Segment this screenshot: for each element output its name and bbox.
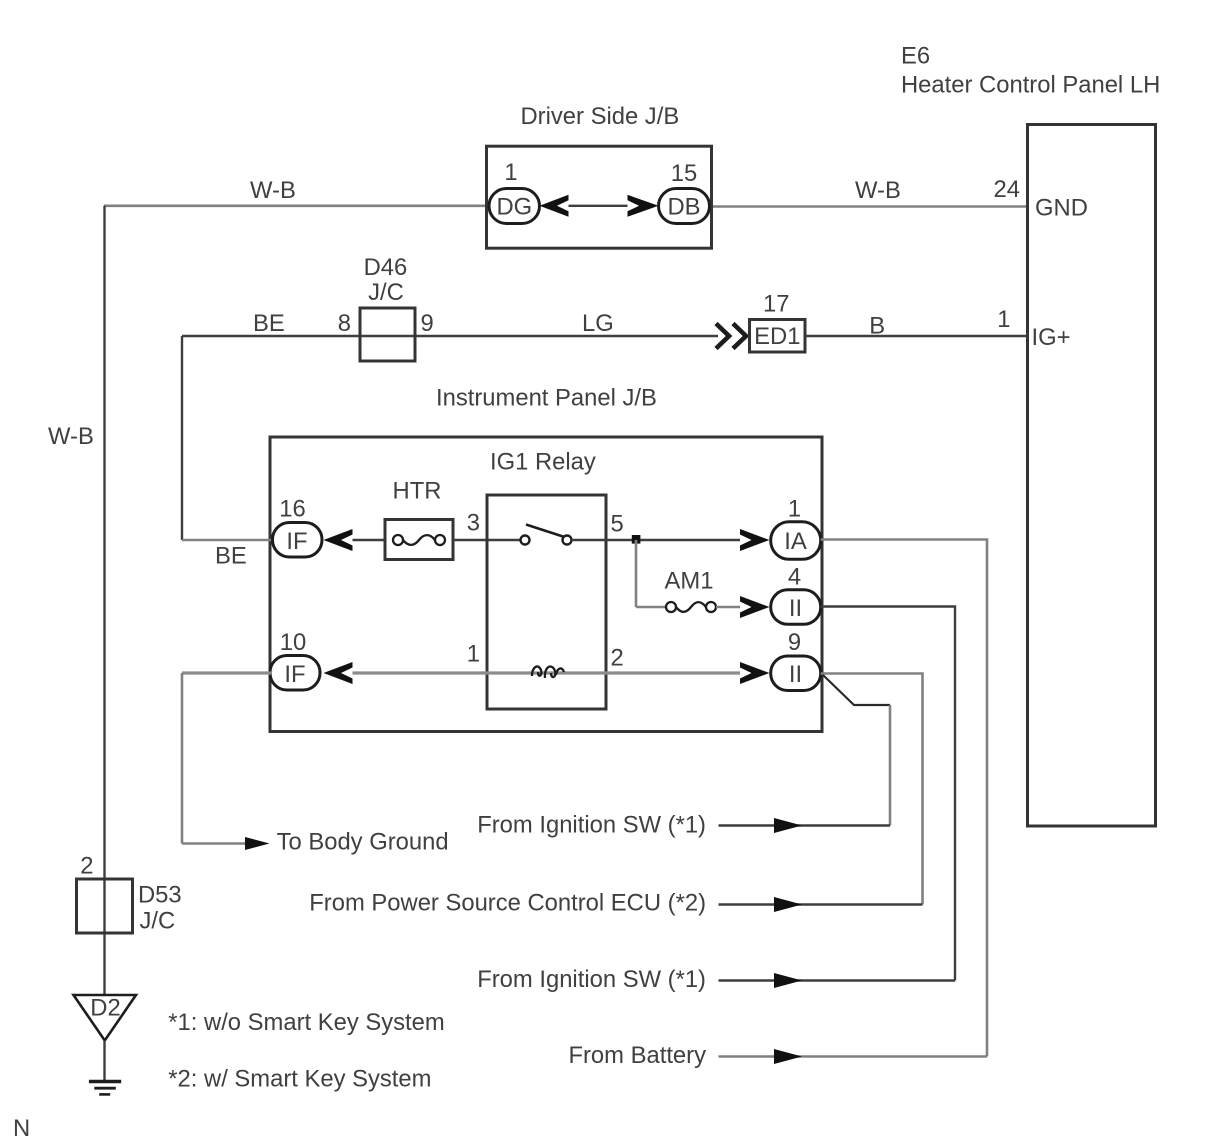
wire down to ignition SW row1 [889, 705, 892, 826]
connector arrow into IA [740, 529, 770, 551]
ground connector D2 triangle [74, 995, 137, 1041]
svg-text:From Power Source Control ECU: From Power Source Control ECU (*2) [309, 890, 706, 917]
connector arrow into IF10 [324, 662, 353, 684]
svg-text:B: B [869, 313, 885, 340]
svg-text:HTR: HTR [393, 478, 442, 505]
svg-text:Heater Control Panel LH: Heater Control Panel LH [901, 72, 1160, 99]
junction block Driver Side J/B box [487, 146, 712, 248]
svg-text:E6: E6 [901, 43, 930, 70]
connector arrow into DG [540, 195, 569, 217]
wire from battery horizontal [719, 1055, 988, 1058]
svg-text:24: 24 [994, 176, 1020, 203]
wire from power source control ECU [719, 903, 923, 905]
svg-text:1: 1 [997, 306, 1010, 333]
wire B from ED1 to E6 [805, 335, 1028, 337]
svg-text:1: 1 [467, 641, 480, 668]
svg-text:N: N [13, 1115, 30, 1142]
svg-text:8: 8 [338, 310, 351, 337]
relay IG1 box [487, 495, 606, 709]
svg-text:4: 4 [788, 564, 801, 591]
svg-text:1: 1 [788, 496, 801, 523]
wire from ignition SW row1 [719, 824, 891, 826]
svg-text:From Ignition SW (*1): From Ignition SW (*1) [477, 812, 706, 839]
svg-text:D2: D2 [90, 995, 120, 1022]
svg-text:*2: w/ Smart Key System: *2: w/ Smart Key System [168, 1066, 431, 1093]
wire IF10 to left [182, 671, 271, 674]
connector chevrons into ED1 [716, 324, 746, 349]
arrow from ignition SW row3 [774, 973, 802, 988]
svg-text:IG+: IG+ [1032, 324, 1071, 351]
svg-text:W-B: W-B [250, 177, 296, 204]
fuse AM1 [666, 602, 716, 612]
wire IA to battery vertical route [821, 540, 987, 1057]
wire coil row [353, 671, 741, 674]
wire IF16 to HTR [353, 539, 386, 541]
svg-text:D53: D53 [138, 882, 182, 909]
svg-text:J/C: J/C [368, 279, 404, 306]
svg-text:5: 5 [611, 511, 624, 538]
svg-text:II: II [789, 595, 802, 622]
connector arrow into DB [628, 195, 659, 217]
svg-text:W-B: W-B [855, 177, 901, 204]
svg-text:J/C: J/C [140, 908, 176, 935]
svg-text:DG: DG [496, 194, 532, 221]
svg-text:1: 1 [504, 159, 517, 186]
svg-text:Driver Side J/B: Driver Side J/B [521, 103, 680, 130]
connector cavity II pin9 [771, 656, 821, 691]
wire between DG and DB [569, 205, 628, 207]
arrow to body ground [245, 837, 270, 850]
svg-text:ED1: ED1 [754, 323, 800, 350]
junction connector D46 J/C box [360, 308, 415, 361]
arrow from battery [774, 1049, 802, 1064]
svg-text:2: 2 [611, 645, 624, 672]
svg-text:*1: w/o Smart Key System: *1: w/o Smart Key System [168, 1009, 444, 1036]
svg-text:9: 9 [788, 629, 801, 656]
switch contact left [521, 536, 530, 545]
connector cavity DB [659, 189, 710, 224]
connector cavity IF pin10 [270, 656, 320, 691]
svg-text:From Ignition SW (*1): From Ignition SW (*1) [477, 966, 706, 993]
wire D2 to ground [103, 1041, 105, 1081]
connector cavity IA pin1 [771, 522, 821, 560]
svg-text:16: 16 [279, 496, 305, 523]
wire II4 to ignition SW route [821, 607, 955, 981]
coil of IG1 relay [532, 666, 564, 678]
svg-text:To Body Ground: To Body Ground [277, 829, 449, 856]
wire BE into IF16 [182, 539, 274, 542]
switch lever of IG1 relay [526, 525, 565, 538]
svg-text:3: 3 [467, 510, 480, 537]
junction connector D53 J/C box [77, 879, 133, 933]
wire W-B top right [710, 205, 1028, 208]
svg-text:IF: IF [284, 661, 305, 688]
wire AM1 to II4 [716, 606, 740, 609]
wire down to body ground [181, 673, 184, 844]
svg-text:IG1 Relay: IG1 Relay [490, 449, 596, 476]
svg-text:2: 2 [80, 853, 93, 880]
ground symbol [89, 1082, 121, 1095]
wire BE horizontal to D46 and LG to ED1 [182, 335, 718, 337]
wire junction down to AM1 [635, 540, 638, 607]
svg-text:DB: DB [667, 194, 700, 221]
node junction dot [632, 535, 641, 544]
connector arrow into II4 [740, 596, 770, 618]
wire BE vertical [181, 336, 183, 540]
svg-text:BE: BE [253, 310, 285, 337]
wire W-B top left [104, 205, 490, 208]
svg-text:15: 15 [671, 160, 697, 187]
svg-text:Instrument Panel J/B: Instrument Panel J/B [436, 385, 657, 412]
svg-text:IA: IA [784, 528, 807, 555]
connector cavity DG [489, 189, 540, 224]
connector arrow into IF16 [324, 529, 353, 551]
wire II9 to ECU route [821, 674, 923, 905]
fuse HTR [385, 520, 453, 560]
svg-text:GND: GND [1035, 195, 1088, 222]
svg-text:17: 17 [763, 291, 789, 318]
svg-text:IF: IF [286, 528, 307, 555]
svg-text:II: II [789, 661, 802, 688]
svg-text:9: 9 [421, 310, 434, 337]
wire to body ground arrow [182, 842, 246, 845]
svg-text:From Battery: From Battery [568, 1042, 706, 1069]
switch contact right [563, 536, 572, 545]
connector arrow into II9 [740, 662, 770, 684]
wire W-B left vertical [103, 206, 105, 996]
svg-text:W-B: W-B [48, 423, 94, 450]
connector cavity IF pin16 [273, 523, 323, 558]
wire HTR to relay pin3 [453, 539, 521, 541]
svg-text:AM1: AM1 [665, 568, 714, 595]
wire relay pin5 to junction [572, 539, 741, 541]
svg-text:BE: BE [215, 543, 247, 570]
wire from ignition SW row3 [719, 979, 956, 981]
arrow from power source control ECU [774, 897, 802, 912]
junction block Instrument Panel J/B box [270, 437, 822, 732]
wire to AM1 fuse [636, 606, 666, 609]
wire II9 diagonal [823, 675, 890, 705]
connector E6 box [1028, 125, 1156, 827]
arrow from ignition SW row1 [774, 818, 802, 833]
connector ED1 box [750, 320, 806, 353]
svg-text:LG: LG [582, 310, 614, 337]
svg-text:D46: D46 [364, 254, 408, 281]
svg-text:10: 10 [280, 629, 306, 656]
connector cavity II pin4 [771, 590, 821, 625]
